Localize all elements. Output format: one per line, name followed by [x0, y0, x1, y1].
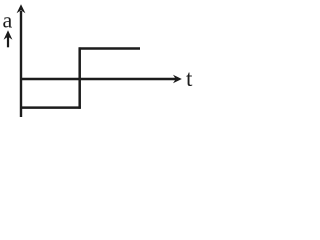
waveform step (vertical): [78, 47, 81, 108]
t axis arrowhead: [173, 75, 182, 84]
vertical axis arrowhead: [17, 4, 26, 13]
svg-text:t: t: [186, 66, 193, 91]
small up arrow below label a: [4, 30, 13, 47]
horizontal axis (t axis): [20, 78, 176, 80]
svg-text:a: a: [3, 8, 13, 33]
vertical axis (a axis): [20, 11, 22, 117]
waveform high level segment: [79, 47, 140, 50]
waveform low level segment: [20, 106, 81, 109]
